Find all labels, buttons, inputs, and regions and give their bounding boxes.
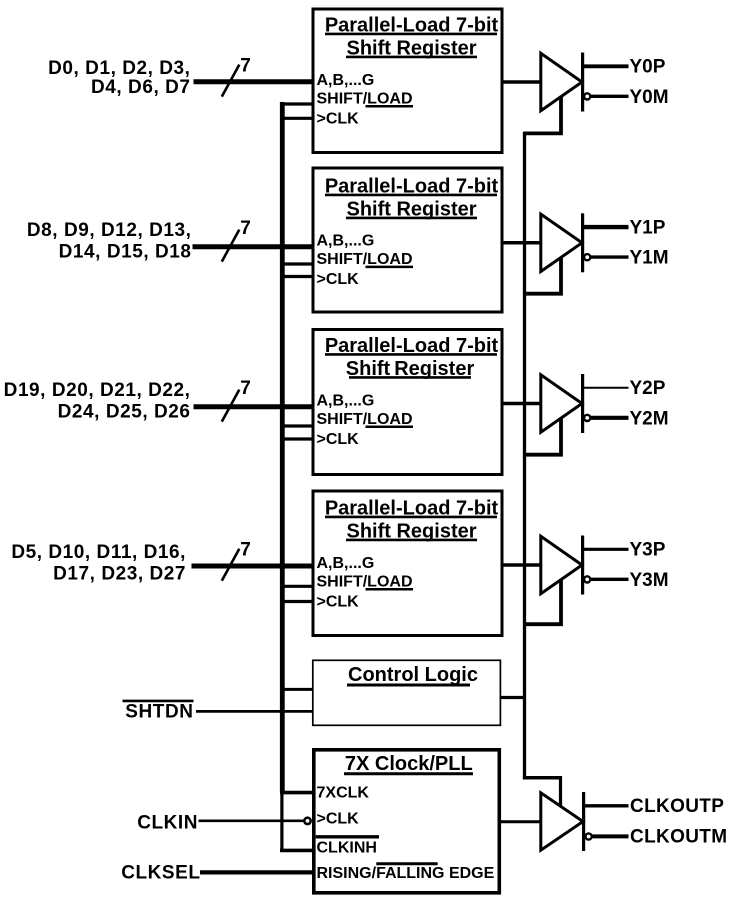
bus2 slash (222, 230, 240, 262)
wire CLKOUTP (585, 804, 629, 807)
A2 inverting bubble (584, 415, 590, 421)
wire control logic right stub (501, 696, 526, 699)
svg-text:SHIFT/LOAD: SHIFT/LOAD (317, 90, 413, 107)
svg-text:7: 7 (240, 55, 251, 76)
wire Y0M (591, 95, 629, 98)
A3 inverting bubble (584, 576, 590, 582)
wire bus1 (194, 79, 314, 84)
wire CLKOUTM (592, 834, 629, 838)
A0 inverting bubble (584, 93, 590, 99)
7X clock PLL U6 box (314, 750, 500, 893)
svg-text:Y1M: Y1M (630, 248, 669, 269)
svg-text:Y1P: Y1P (630, 218, 666, 239)
wire U3 shift/load stub (280, 424, 313, 427)
svg-text:D4, D6, D7: D4, D6, D7 (91, 77, 190, 98)
svg-text:A,B,...G: A,B,...G (317, 555, 375, 572)
wire Y2M (591, 416, 629, 420)
node SHTDN label (123, 701, 194, 723)
svg-text:CLKSEL: CLKSEL (121, 863, 200, 884)
A4 inverting bubble (586, 833, 592, 839)
wire U1 to buffer A0 (503, 80, 541, 84)
U4 pin labels (317, 555, 414, 610)
buffer A0 (541, 53, 583, 112)
wire CLKIN (199, 819, 304, 822)
buffer A4 (clock output driver) (541, 792, 584, 851)
svg-text:>CLK: >CLK (317, 271, 360, 288)
svg-text:7X Clock/PLL: 7X Clock/PLL (345, 753, 473, 775)
svg-text:A,B,...G: A,B,...G (317, 233, 375, 250)
svg-text:7XCLK: 7XCLK (317, 784, 370, 801)
shift register U1 box (313, 9, 502, 153)
node D0-D7 labels (48, 58, 190, 98)
wire U2 shift/load stub (280, 262, 313, 265)
svg-text:>CLK: >CLK (317, 810, 360, 827)
svg-text:>CLK: >CLK (317, 593, 360, 610)
U5 title (347, 664, 478, 686)
svg-text:>CLK: >CLK (317, 431, 360, 448)
node D19-D26 labels (4, 380, 191, 423)
wire bus2 (193, 244, 314, 249)
svg-text:Y3P: Y3P (630, 540, 666, 561)
U6 title (344, 753, 473, 775)
wire Y1M (591, 255, 629, 258)
shift register U2 box (313, 168, 502, 312)
svg-text:D8, D9, D12, D13,: D8, D9, D12, D13, (27, 220, 192, 241)
wire SHTDN (196, 710, 313, 713)
svg-text:SHIFT/LOAD: SHIFT/LOAD (317, 411, 413, 428)
wire A3 clock stub (524, 580, 562, 625)
svg-text:A,B,...G: A,B,...G (317, 393, 375, 410)
buffer A3 (541, 536, 583, 595)
wire U1 shift/load stub (280, 102, 313, 105)
bus4 slash (222, 549, 240, 581)
wire control logic left stub (280, 688, 313, 691)
U6 pin labels (316, 784, 495, 882)
wire 7XCLK stub (280, 791, 314, 795)
wire Y2P (584, 387, 629, 389)
U2 pin labels (317, 233, 414, 289)
buffer A2 (541, 374, 583, 433)
wire U4 shift/load stub (280, 585, 313, 588)
svg-text:RISING/FALLING EDGE: RISING/FALLING EDGE (317, 865, 495, 882)
node D8-D18 labels (27, 220, 192, 263)
wire A2 clock stub (524, 418, 562, 455)
svg-text:CLKOUTM: CLKOUTM (630, 826, 727, 847)
wire Y1P (584, 225, 629, 229)
svg-text:D14, D15, D18: D14, D15, D18 (59, 241, 192, 262)
svg-text:D5, D10, D11, D16,: D5, D10, D11, D16, (11, 542, 186, 563)
svg-text:SHTDN: SHTDN (125, 701, 193, 722)
wire Y3M (591, 578, 629, 581)
CLKIN input bubble (304, 818, 310, 824)
bus3 slash (222, 390, 240, 422)
wire A1 clock stub (524, 257, 562, 293)
svg-text:Y2P: Y2P (630, 378, 666, 399)
bus1 slash (222, 65, 240, 97)
wire bus4 (192, 564, 314, 569)
svg-text:D24, D25, D26: D24, D25, D26 (58, 401, 191, 422)
U1 title (325, 14, 499, 59)
svg-text:Y0M: Y0M (630, 87, 669, 108)
wire right rail (7x serial clock) (523, 132, 526, 780)
wire A0 clock stub (524, 97, 562, 134)
wire Y0P (584, 64, 629, 68)
wire U6 to buffer A4 (500, 820, 541, 823)
svg-text:7: 7 (240, 540, 251, 561)
svg-text:D0, D1, D2, D3,: D0, D1, D2, D3, (48, 58, 190, 79)
wire U4 clk stub (280, 600, 313, 603)
svg-text:SHIFT/LOAD: SHIFT/LOAD (317, 573, 413, 590)
shift register U3 box (313, 330, 502, 475)
wire clkout buffer top stub (559, 776, 562, 806)
shift register U4 box (313, 491, 502, 636)
svg-text:7: 7 (240, 378, 251, 399)
svg-text:Y0P: Y0P (630, 57, 666, 78)
svg-text:SHIFT/LOAD: SHIFT/LOAD (317, 251, 413, 268)
buffer A1 (541, 213, 583, 272)
svg-text:D17, D23, D27: D17, D23, D27 (53, 563, 186, 584)
A1 inverting bubble (584, 254, 590, 260)
U3 pin labels (317, 393, 414, 448)
svg-text:Y3M: Y3M (630, 570, 669, 591)
wire U4 to buffer A3 (503, 563, 541, 567)
svg-text:CLKINH: CLKINH (317, 839, 377, 856)
wire U3 clk stub (280, 437, 313, 440)
wire left rail (shift/load and clock distribution) (280, 102, 285, 793)
wire CLKINH stub (280, 849, 314, 853)
wire U2 clk stub (280, 275, 313, 278)
wire clock rail to clkout buffer corner (523, 776, 562, 780)
svg-text:CLKOUTP: CLKOUTP (630, 796, 724, 817)
svg-text:A,B,...G: A,B,...G (317, 72, 375, 89)
U4 title (325, 497, 499, 542)
svg-text:Y2M: Y2M (630, 408, 669, 429)
svg-text:D19, D20, D21, D22,: D19, D20, D21, D22, (4, 380, 191, 401)
U3 title (325, 335, 499, 380)
wire CLKSEL (200, 870, 314, 874)
svg-text:7: 7 (240, 218, 251, 239)
wire U2 to buffer A1 (503, 241, 541, 245)
wire bus3 (194, 404, 314, 409)
node D5-D27 labels (11, 542, 186, 585)
U2 title (325, 175, 499, 220)
U1 pin labels (317, 72, 414, 127)
control logic U5 box (313, 660, 501, 725)
wire U3 to buffer A2 (503, 402, 541, 406)
svg-text:Control Logic: Control Logic (348, 664, 478, 686)
wire U1 clk stub (280, 117, 313, 120)
wire Y3P (584, 548, 629, 551)
svg-text:CLKIN: CLKIN (137, 812, 198, 833)
svg-text:>CLK: >CLK (317, 110, 360, 127)
